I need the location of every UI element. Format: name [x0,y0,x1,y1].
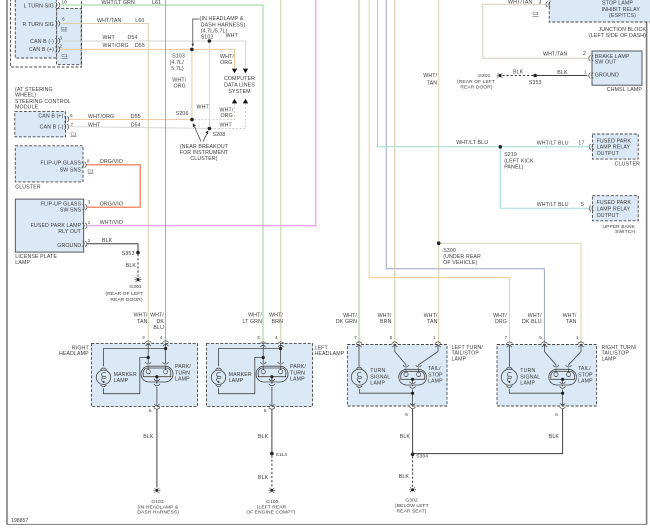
wire label WHT/DK BLU (RH pin4) [150,313,164,332]
computer data lines system text [224,76,255,95]
RH junction dot pin3 branch [147,356,150,359]
label WHT/LT BLU 17 [537,141,585,147]
splice S103 dot [190,48,194,52]
svg-text:BLK: BLK [258,434,269,440]
svg-text:STOP: STOP [428,372,443,378]
splice S300 dot [437,241,441,245]
LT pin bracket 1 [435,342,441,347]
svg-text:DK: DK [156,319,164,325]
RH park/turn lamp housing [141,366,173,382]
wire label WHT/TAN (RH pin3) [134,313,148,325]
computer data lines arrow up 2 [243,99,248,104]
svg-text:WHT/ORG: WHT/ORG [88,114,114,120]
license pin bracket 3 [83,204,88,210]
svg-text:S102: S102 [201,35,214,41]
svg-text:BRN: BRN [272,319,284,325]
LH bottom pin bracket 6 [269,404,275,409]
svg-text:TURN: TURN [175,370,190,376]
wire label WHT/BRN (LH pin4) [269,313,283,325]
upper bank switch caption [602,224,635,235]
splice S102 dot [208,39,212,43]
svg-text:WHT/: WHT/ [248,313,262,319]
ground G100 symbol [269,488,276,493]
svg-text:GROUND: GROUND [57,243,81,249]
svg-text:WHT/LT BLU: WHT/LT BLU [456,140,488,146]
computer data lines arrow down 1 (WHT/ORG) [232,69,237,74]
license pin bracket 1 [83,223,88,229]
svg-text:LAMP: LAMP [290,377,305,383]
right turn lamp pin labels [504,335,578,340]
svg-text:TURN: TURN [290,370,305,376]
svg-text:LAMP: LAMP [520,381,535,387]
G103 label [137,499,179,516]
RT turn signal bulb [501,367,517,387]
LH marker lamp text [229,372,252,384]
fused park lamp relay output box (cluster) [592,134,638,159]
RT tail/stop lamp housing [549,369,577,385]
svg-text:(4.7L/: (4.7L/ [170,60,185,66]
svg-text:4: 4 [275,335,278,340]
wire BLK chmsl ground to S353 [535,75,587,77]
svg-text:REAR DOOR): REAR DOOR) [460,85,493,91]
svg-text:ORG: ORG [174,84,186,90]
svg-text:WHT/LT BLU: WHT/LT BLU [537,141,569,147]
svg-text:LAMP RELAY: LAMP RELAY [597,206,631,212]
svg-text:C3: C3 [88,168,94,173]
left headlamp pin labels [257,335,278,340]
svg-text:PARK/: PARK/ [175,364,191,370]
svg-text:SW SNS: SW SNS [60,208,82,214]
svg-text:DASH HARNESS): DASH HARNESS) [137,510,179,516]
svg-text:CLUSTER): CLUSTER) [190,156,217,162]
label WHT/TAN 2 [543,51,586,57]
splice S114 dot [270,452,274,456]
svg-text:WHT/LT BLU: WHT/LT BLU [537,202,569,208]
RH marker lamp bulb [96,368,110,387]
svg-text:6: 6 [62,17,65,22]
LH junction dot pin4 branch [279,347,282,350]
svg-text:WHT/TAN: WHT/TAN [543,52,567,58]
pin bracket 2 [55,47,60,53]
svg-text:D55: D55 [131,114,141,120]
svg-text:WHT: WHT [226,33,239,39]
svg-text:WHT/: WHT/ [424,313,438,319]
cluster pin bracket 8 [82,162,87,168]
svg-text:2: 2 [60,44,63,49]
svg-text:MARKER: MARKER [114,372,137,378]
wire WHT/DK GRN from top to left turn lamp pin 7 [358,0,360,345]
pin bracket 6 [55,21,60,27]
svg-text:LAMP: LAMP [602,356,617,362]
stop lamp inhibit relay box [549,0,650,22]
RH junction dot pin4 branch [164,347,167,350]
svg-text:R TURN SIG: R TURN SIG [23,22,54,28]
RT pin bracket 7 [506,342,512,347]
splice S304 dot [411,453,415,457]
svg-text:S114: S114 [276,452,288,458]
svg-text:PANEL): PANEL) [504,164,523,170]
label WHT/ORG beside S103 vertical [172,78,186,90]
svg-text:6: 6 [149,408,152,413]
left turn lamp pin labels [354,335,436,340]
fused park cluster pin bracket 17 [589,144,594,150]
RT bottom pin bracket 6 [560,403,566,408]
svg-text:1: 1 [584,69,587,74]
svg-text:D55: D55 [135,43,145,49]
svg-text:FLIP-UP GLASS: FLIP-UP GLASS [41,202,82,208]
license plate lamp caption [15,254,57,266]
RT bottom junction dot [561,392,564,395]
svg-text:SIGNAL: SIGNAL [370,374,390,380]
pin bracket 10 [55,2,60,8]
svg-text:WHT/VIO: WHT/VIO [100,220,123,226]
svg-text:CHMSL LAMP: CHMSL LAMP [607,87,643,93]
svg-text:PARK/: PARK/ [290,364,306,370]
svg-text:LAMP: LAMP [578,379,593,385]
dashed BLK S353 to G301 (chmsl) [503,75,533,77]
svg-text:G301: G301 [478,73,491,79]
svg-text:HEADLAMP: HEADLAMP [315,351,345,357]
svg-text:C1: C1 [71,131,77,136]
svg-text:LAMP: LAMP [370,381,385,387]
svg-text:TAN: TAN [427,319,438,325]
svg-text:(REAR OF LEFT: (REAR OF LEFT [106,291,144,297]
pin bracket 3 [55,38,60,44]
svg-text:6: 6 [264,408,267,413]
svg-text:G103: G103 [151,499,164,505]
svg-text:JUNCTION BLOCK: JUNCTION BLOCK [599,27,647,33]
LH park/turn bulb posts [260,362,283,406]
svg-text:ORG/VIO: ORG/VIO [100,201,123,207]
svg-text:WHT: WHT [88,122,101,128]
svg-text:2: 2 [583,51,586,57]
svg-text:(UNDER REAR: (UNDER REAR [443,254,481,260]
svg-text:FUSED PARK: FUSED PARK [597,200,632,206]
svg-text:ORG/VIO: ORG/VIO [100,159,123,165]
S103 label [170,54,185,73]
wire label WHT/DK GRN [336,313,358,325]
G301 label (license) [106,284,144,303]
dashed BLK S353 to G301 [137,254,139,277]
svg-text:MARKER: MARKER [229,372,252,378]
fused park cluster text [597,138,632,157]
svg-text:WHT/: WHT/ [378,313,392,319]
svg-text:WHT/ORG: WHT/ORG [103,43,129,49]
left turn/tail/stop lamp box [347,345,447,407]
wire WHT/LT BLU from top to S219 and cluster pin 17 [378,0,589,147]
wire label WHT/DK BLU (RT pin5) [522,313,542,325]
svg-text:WHT/: WHT/ [528,313,542,319]
svg-text:17: 17 [578,141,584,147]
right headlamp caption [59,345,90,357]
svg-text:INHIBIT RELAY: INHIBIT RELAY [602,7,641,13]
svg-text:COMPUTER: COMPUTER [224,76,255,82]
svg-text:7: 7 [504,335,507,340]
ground G302 symbol [409,487,416,492]
splice S219 dot [499,145,503,149]
svg-text:WHT/: WHT/ [150,313,164,319]
svg-text:BLK: BLK [258,475,269,481]
chmsl pin bracket 2 [589,55,594,61]
svg-text:(REAR OF LEFT: (REAR OF LEFT [457,79,495,85]
wire BLK right turn lamp to S304 [414,409,563,454]
svg-text:DASH HARNESS): DASH HARNESS) [201,22,246,28]
wire WHT/TAN from top through S300 [438,0,440,345]
pin labels top-left module [23,0,68,58]
svg-text:WHT/TAN: WHT/TAN [97,18,121,24]
RH bottom pin bracket 6 [154,404,160,409]
svg-text:L TURN SIG: L TURN SIG [24,4,54,10]
junction block inner module box (blue, left section) [15,0,56,58]
svg-text:S304: S304 [416,454,428,460]
dashed wire from up-arrow 1 to S206 [192,104,235,120]
left turn lamp caption [452,345,484,363]
svg-text:2: 2 [88,238,91,243]
wire BLK left headlamp to S114 [271,409,273,453]
S219 label [504,152,534,170]
wire BLK left turn lamp to S304 [412,409,414,455]
LH pin bracket 3 [260,342,266,347]
steering control module caption [15,87,71,111]
svg-text:ORG: ORG [220,60,232,66]
svg-text:TAIL/: TAIL/ [578,366,591,372]
splice S353 dot (chmsl) [533,74,537,78]
svg-text:WHT/: WHT/ [269,313,283,319]
svg-text:LT GRN: LT GRN [243,319,263,325]
LH pin bracket 4 [278,342,284,347]
svg-text:4: 4 [160,335,163,340]
svg-text:TURN: TURN [370,368,385,374]
svg-text:SWITCH: SWITCH [615,229,635,235]
LT turn signal text [370,368,390,386]
RT internal wiring [509,345,581,367]
svg-text:(4.7L/5.7L): (4.7L/5.7L) [201,29,228,35]
steering module pin labels [38,113,77,136]
RH pin bracket 3 [145,341,151,346]
svg-text:LAMP: LAMP [175,377,190,383]
svg-text:BLK: BLK [143,434,154,440]
svg-text:MODULE: MODULE [15,105,39,111]
wire label WHT/ORG (RT pin7) [493,313,507,325]
svg-text:(LEFT REAR: (LEFT REAR [257,504,287,510]
svg-text:SW OUT: SW OUT [595,60,617,66]
svg-text:GROUND: GROUND [595,73,619,79]
wire WHT/LT BLU S219 branch to upper bank switch pin 5 [500,147,588,209]
svg-text:CAN B (-): CAN B (-) [30,39,54,45]
wire label WHT/TAN (LT pin1) [424,313,438,325]
svg-text:8: 8 [87,159,90,164]
svg-text:L60: L60 [135,18,144,24]
svg-text:D54: D54 [128,35,138,41]
dashed BLK S114 to G100 [271,455,273,487]
G100 label [246,499,295,516]
svg-text:STOP LAMP: STOP LAMP [602,0,633,6]
RT pin bracket 1 [578,342,584,347]
svg-text:3: 3 [257,335,260,340]
svg-text:3: 3 [88,200,91,205]
fused park upper bank pin bracket 5 [589,205,594,211]
LH park/turn lamp housing [256,366,288,382]
wire WHT D54 CAN bus [60,41,246,68]
svg-text:6: 6 [405,412,408,417]
license pin bracket 2 [83,241,88,247]
fused park lamp relay output box (upper bank switch) [592,196,638,221]
svg-text:10: 10 [62,0,68,5]
svg-text:ORG: ORG [495,319,507,325]
svg-text:198857: 198857 [11,518,28,524]
LH marker lamp bulb [211,368,225,387]
wire WHT/ORG branch S103 down to S206 [191,49,193,119]
svg-text:WHT: WHT [197,105,210,111]
wire labels row L61/L60/D54/D55 [97,0,161,49]
label WHT/TAN 3 [508,0,542,6]
wire label WHT/TAN (RT pin1) [563,313,577,325]
LH park/turn center dot [270,375,273,378]
G301 label (chmsl) [457,73,495,91]
ground G103 symbol [154,488,161,493]
steering pin bracket 7 [64,124,69,130]
stop lamp relay pin bracket 3 [546,1,551,7]
svg-text:SW SNS: SW SNS [60,168,82,174]
LT pin bracket 7 [356,342,362,347]
svg-text:BLK: BLK [126,263,137,269]
svg-text:BLK: BLK [399,474,410,480]
wire label WHT/BRN (LT pin5) [378,313,392,325]
svg-text:TAN: TAN [427,81,438,87]
svg-text:G302: G302 [405,498,418,504]
svg-text:S353: S353 [529,80,542,86]
svg-text:SIGNAL: SIGNAL [520,374,540,380]
svg-text:(BELOW LEFT: (BELOW LEFT [395,503,429,509]
svg-text:BRN: BRN [380,319,392,325]
wire WHT/DK BLU from top to right turn lamp pin 5 [386,0,544,345]
LT tail/stop text [428,366,443,384]
svg-text:ORG: ORG [221,113,233,119]
steering wire labels [88,114,141,128]
svg-text:1: 1 [88,220,91,225]
wire WHT/TAN L60 to right headlamp pin 3 [60,24,148,344]
wire WHT/ORG from top to right turn lamp pin 7 [369,0,509,345]
ground G301 symbol (chmsl) [497,73,504,78]
RH marker lamp text [114,372,137,384]
LH internal wiring [219,344,281,394]
svg-text:TURN: TURN [520,368,535,374]
svg-text:7: 7 [354,335,357,340]
svg-text:OUTPUT: OUTPUT [597,151,620,157]
svg-text:CAN B (+): CAN B (+) [38,114,63,120]
svg-text:G100: G100 [266,499,279,505]
RT tail/stop center dot [561,378,564,381]
svg-text:G301: G301 [129,284,142,290]
svg-text:3: 3 [142,335,145,340]
svg-text:3: 3 [60,35,63,40]
right headlamp pin labels [142,335,163,340]
svg-text:LAMP RELAY: LAMP RELAY [597,145,631,151]
svg-text:FLIP-UP GLASS: FLIP-UP GLASS [40,161,81,167]
dashed BLK S304 to G302 [412,456,414,487]
wire BLK right headlamp to G103 [156,409,158,487]
right headlamp box [92,343,198,406]
wire WHT/LT GRN L61 to left headlamp pin 3 [60,5,263,344]
right turn/tail/stop lamp box [497,345,597,407]
svg-text:S208: S208 [213,132,226,138]
svg-text:5: 5 [539,335,542,340]
ground G301 symbol (license) [135,277,142,282]
svg-text:3: 3 [538,0,541,6]
wire WHT/TAN S300 branch to right turn lamp pin 1 [439,243,581,344]
svg-text:1: 1 [433,335,436,340]
wire WHT/DK BLU from top to right headlamp pin 4 [165,0,167,343]
svg-text:D54: D54 [131,122,141,128]
svg-text:(IN HEADLAMP &: (IN HEADLAMP & [200,16,244,22]
svg-text:S353: S353 [122,251,135,257]
S300 label [443,248,481,266]
RT bottom joining wire and dot [509,389,562,406]
svg-text:TAIL/: TAIL/ [428,366,441,372]
svg-text:S219: S219 [504,152,517,158]
splice S353 dot (license) [136,251,140,255]
svg-text:LAMP: LAMP [229,378,244,384]
svg-text:BLK: BLK [400,434,411,440]
svg-text:STOP: STOP [578,372,593,378]
G302 label [395,498,429,515]
near breakout caption with pointer arrows [180,123,229,162]
wire WHT/ORG D55 steering to S206 [70,118,192,120]
svg-text:CLUSTER: CLUSTER [615,161,640,167]
steering pin bracket 6 [64,116,69,122]
LT tail/stop bulb posts [403,365,422,393]
junction block caption [589,27,646,39]
svg-text:REAR SEAT): REAR SEAT) [397,508,427,514]
left headlamp caption [315,345,345,357]
svg-text:WHT/LT GRN: WHT/LT GRN [102,0,135,6]
svg-text:OF VEHICLE): OF VEHICLE) [443,260,477,266]
junction block connector box C1/C2 (blue, right section) [57,9,82,65]
svg-text:CAN B (-): CAN B (-) [40,125,64,131]
LT turn signal bulb [351,367,367,387]
LT pin bracket 5 [392,342,398,347]
wire WHT D54 steering to S208 [70,127,210,129]
svg-text:S206: S206 [176,111,189,117]
fused park upper bank text [597,200,632,219]
svg-text:WHT/: WHT/ [134,313,148,319]
svg-text:C2: C2 [61,26,67,31]
chmsl lamp box [592,51,642,85]
wire WHT/VIO fused park lamp rly out [87,0,316,226]
svg-text:(LEFT KICK: (LEFT KICK [504,158,534,164]
stop lamp inhibit relay text [602,0,641,19]
wire WHT/BRN from top to left headlamp pin 4 [280,0,282,344]
svg-text:BLK: BLK [557,70,568,76]
svg-text:S103: S103 [172,54,185,60]
svg-text:OUTPUT: OUTPUT [597,213,620,219]
RT pin bracket 5 [541,342,547,347]
wire BLK license ground to S353 [87,244,138,253]
svg-text:(IN HEADLAMP &: (IN HEADLAMP & [138,504,179,510]
svg-text:WHT/: WHT/ [220,54,234,60]
svg-text:LAMP: LAMP [15,260,30,266]
license plate lamp box [15,199,83,252]
svg-text:DATA LINES: DATA LINES [224,82,255,88]
svg-text:BLK: BLK [513,69,524,75]
svg-text:LAMP: LAMP [452,356,467,362]
LH junction dot pin3 branch [262,356,265,359]
svg-text:WHT/TAN: WHT/TAN [508,0,532,6]
right turn lamp caption [602,345,637,363]
LT bottom pin bracket 6 [410,403,416,408]
label WHT/TAN mid-page [423,73,437,87]
svg-text:6: 6 [70,113,73,118]
